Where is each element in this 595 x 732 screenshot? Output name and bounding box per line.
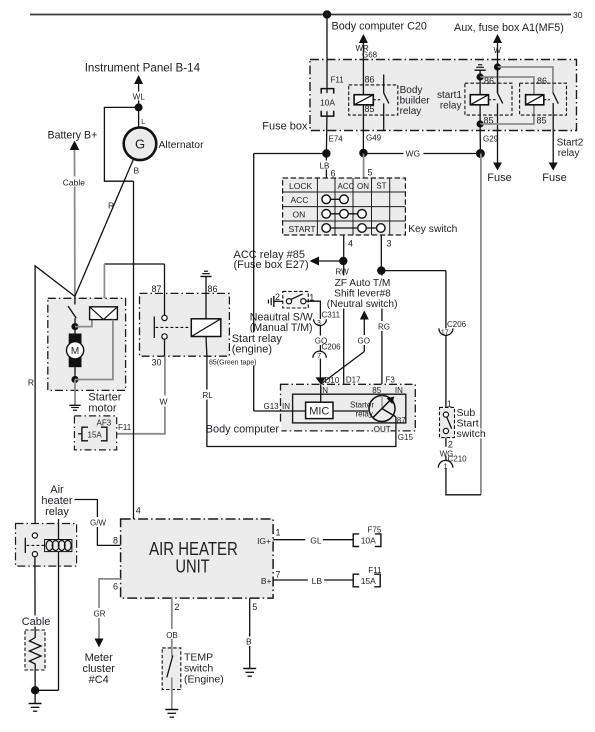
label Start relay (engine) (231, 333, 283, 358)
svg-text:OB: OB (166, 631, 178, 640)
wire WL node to alternator L (139, 107, 146, 127)
IC MIC (body computer) (306, 402, 333, 418)
wire GO (C311 to C206) (313, 325, 328, 351)
svg-text:85: 85 (537, 116, 547, 126)
svg-text:GL: GL (310, 536, 322, 546)
relay U1 body builder relay (349, 75, 398, 131)
svg-text:G49: G49 (366, 134, 382, 143)
svg-text:85: 85 (372, 386, 381, 395)
wire G49 to key switch pin 5 (gray) (364, 153, 373, 178)
svg-text:(engine): (engine) (232, 344, 272, 356)
relay K1 start1 relay (465, 67, 512, 131)
svg-text:Body computer: Body computer (206, 423, 280, 435)
wire G15/87 out to start relay 85 (207, 356, 396, 446)
svg-text:M: M (71, 346, 79, 357)
arrow to Aux fuse box (W wire) (493, 34, 502, 93)
wire key switch pin 4 (RW) (344, 235, 353, 261)
wire G/W (label pointer to air heater unit pin 8) (75, 500, 121, 546)
svg-text:30: 30 (152, 358, 162, 368)
node ZF junction (pin3/RG) (377, 266, 385, 274)
svg-text:Fuse box: Fuse box (262, 121, 308, 133)
svg-text:G: G (135, 137, 145, 152)
key switch ON row contacts (322, 210, 366, 219)
svg-text:8: 8 (113, 536, 118, 546)
ground (cable bottom) (29, 704, 42, 712)
svg-text:2: 2 (275, 292, 280, 302)
wire TEMP switch to ground (gray) (171, 690, 173, 710)
body computer box (gray) (281, 384, 416, 431)
svg-text:UNIT: UNIT (175, 556, 209, 576)
connector C210 pin 1 (438, 455, 467, 471)
svg-text:LB: LB (312, 576, 323, 586)
svg-text:W: W (160, 397, 168, 407)
label Cable (bottom) (21, 616, 52, 629)
label RL (202, 390, 214, 401)
wire ZF node right to C206 (381, 270, 446, 272)
svg-text:R: R (28, 378, 34, 388)
svg-text:2: 2 (175, 602, 180, 612)
wire node to ground (34, 690, 36, 703)
wire 30 bus to fuse F11 (326, 15, 328, 94)
label Neautral S/W (Manual T/M) (250, 312, 313, 335)
relay K2 start2 relay (520, 76, 567, 131)
svg-text:86: 86 (537, 76, 547, 86)
wire start relay 30 to AF3 fuse (W, gray) (107, 356, 169, 434)
svg-text:RW: RW (336, 268, 350, 277)
svg-text:6: 6 (113, 582, 118, 592)
wire 85 node to start2 coil 85 (gray jumper) (480, 105, 534, 124)
pin 5 wire to ground (B) (245, 598, 257, 668)
wire main feed riser (alternator to air heater unit pin 4) (133, 181, 135, 519)
svg-text:C206: C206 (322, 343, 342, 352)
svg-text:15A: 15A (88, 430, 103, 439)
wire LB to key switch pin 6 (319, 154, 336, 179)
connector C206 pin 17 (right) (439, 271, 467, 337)
svg-text:86: 86 (208, 284, 218, 294)
svg-text:RL: RL (203, 391, 214, 400)
svg-text:86: 86 (484, 76, 494, 86)
svg-text:Cable: Cable (22, 616, 51, 628)
arrow to Body computer C20 (WR wire) (356, 34, 378, 95)
svg-text:G13: G13 (264, 402, 280, 411)
svg-text:Instrument Panel B-14: Instrument Panel B-14 (85, 62, 201, 75)
wire MIC to starter relay circle (333, 410, 368, 412)
label 87 / OUT / G15 (373, 416, 413, 442)
node RW (339, 257, 347, 265)
resistor R1 cable (25, 630, 45, 670)
connector C311 pin 3 (314, 310, 341, 327)
wire C206-17 to sub start switch (445, 336, 447, 408)
svg-text:B: B (246, 637, 252, 647)
svg-text:MIC: MIC (309, 406, 329, 418)
fuse F11 10A (in fuse box) (320, 76, 344, 117)
svg-text:ON: ON (293, 210, 306, 220)
node cable/coil ground junction (31, 686, 39, 694)
wire start1 contact to fuse (arrow) (487, 131, 511, 185)
wire R branch (junction to left riser) (28, 266, 75, 533)
fuse F75 10A (353, 526, 382, 547)
key switch ACC row contacts (322, 195, 348, 204)
wire W node to start2 contact (gray jumper) (498, 67, 553, 93)
node W / start2 jumper (494, 63, 501, 70)
svg-text:C311: C311 (322, 310, 341, 319)
svg-text:WL: WL (133, 93, 146, 102)
key switch S1 (table) (283, 178, 406, 235)
svg-text:B+: B+ (261, 576, 272, 586)
relay K3 start relay (engine) (140, 264, 230, 368)
arrow to ACC relay (310, 257, 344, 266)
svg-text:Start2: Start2 (557, 138, 584, 149)
wire motor to ground (gray) (74, 380, 76, 406)
wire 30 bus (30, 10, 583, 20)
switch S2 Neutral S/W (manual) (275, 291, 314, 308)
svg-text:C206: C206 (447, 320, 467, 329)
fuse AF3 15A (F11) (74, 416, 131, 450)
svg-text:GR: GR (94, 610, 106, 619)
wire E74 node to body computer G13 (left/down branch) (254, 153, 327, 155)
svg-text:OUT: OUT (374, 425, 391, 434)
starter relay (body computer, circle) (369, 396, 396, 422)
svg-text:5: 5 (368, 168, 373, 178)
switch S4 Sub Start switch (440, 399, 455, 438)
label Body computer (205, 423, 282, 435)
wire body builder coil to G49 node (362, 105, 364, 154)
label ACC relay #85 (Fuse box E27) (234, 249, 309, 271)
svg-text:F11: F11 (368, 566, 382, 575)
svg-text:G/W: G/W (90, 519, 106, 528)
label TEMP switch (Engine) (184, 652, 224, 686)
solenoid (starter, triangle in box) (90, 307, 118, 320)
wire RG down to body computer F3 (381, 271, 383, 385)
svg-text:relay: relay (45, 506, 69, 518)
wire to solenoid right (gray) (75, 320, 113, 380)
node WL (135, 103, 143, 111)
arrow to ZF shift lever (GO wire) (321, 311, 369, 385)
svg-text:G29: G29 (483, 135, 499, 144)
svg-text:R: R (108, 201, 114, 211)
label Start2 relay (557, 138, 584, 160)
wire fuse F11 to E74 node (325, 111, 328, 153)
svg-text:start1: start1 (437, 90, 462, 101)
svg-text:Cable: Cable (63, 178, 85, 188)
node on 30 bus (323, 10, 331, 18)
svg-text:C210: C210 (448, 455, 468, 464)
wire key switch pin 3 (381, 235, 391, 271)
svg-text:relay: relay (400, 106, 422, 117)
wire coil return to node (35, 689, 58, 691)
svg-text:5: 5 (252, 602, 257, 612)
svg-text:START: START (289, 224, 316, 234)
label GO (ZF branch) (356, 335, 371, 346)
svg-text:4: 4 (348, 239, 353, 249)
key switch row/column labels (289, 181, 387, 234)
fuse box (top, gray) (310, 60, 577, 131)
svg-text:F3: F3 (386, 375, 396, 384)
svg-text:2: 2 (448, 440, 453, 450)
svg-text:(Fuse box E27): (Fuse box E27) (234, 259, 309, 271)
wire G13 into MIC (254, 402, 306, 411)
svg-text:Body: Body (400, 85, 423, 96)
ground (TEMP switch) (165, 710, 178, 718)
pin 1 IG+ wire to fuse F75 (257, 528, 353, 546)
svg-text:E74: E74 (329, 135, 344, 144)
wire air heater relay contact to cable resistor (34, 557, 36, 630)
svg-text:RG: RG (378, 323, 390, 332)
label 85(Green tape) (209, 357, 258, 367)
wire neutral switch pin1 to C311 (306, 301, 321, 319)
motor M (starter) (67, 329, 84, 376)
generator G1 alternator (124, 128, 157, 161)
svg-text:ON: ON (357, 182, 369, 191)
wire WL bracket (to main feed riser) (104, 107, 138, 181)
svg-text:Body computer C20: Body computer C20 (332, 21, 427, 33)
wire R (alternator B diagonal) (75, 159, 134, 297)
node start1 coil 86 (477, 73, 484, 80)
svg-text:relay: relay (558, 148, 580, 159)
label Starter motor (88, 392, 121, 415)
svg-text:6: 6 (331, 169, 336, 179)
wire RW node down to body computer D17 (343, 261, 345, 394)
svg-text:F11: F11 (118, 423, 132, 432)
svg-text:87: 87 (152, 284, 162, 294)
svg-text:Alternator: Alternator (159, 140, 205, 151)
arrow to battery (cable, gray) (62, 141, 86, 297)
starter motor M1 box (48, 296, 126, 390)
body computer pin labels top (320, 375, 403, 395)
svg-text:IN: IN (395, 386, 403, 395)
svg-text:Shift lever#8: Shift lever#8 (334, 288, 391, 299)
svg-text:D10: D10 (325, 376, 340, 385)
wire resistor to ground node (34, 670, 36, 690)
label Starter relay (internal) (350, 400, 374, 418)
svg-text:AF3: AF3 (97, 419, 112, 428)
svg-text:ST: ST (376, 182, 386, 191)
wire to solenoid left (gray) (75, 320, 92, 327)
arrow into D10 (315, 377, 326, 384)
arrow to instrument panel (WL) (132, 75, 146, 107)
svg-text:LOCK: LOCK (289, 181, 312, 191)
svg-text:87: 87 (397, 416, 406, 425)
wire 86 node to start2 coil (gray jumper) (480, 77, 534, 95)
ground (start relay engine, above pin 86) (200, 271, 211, 293)
ground (pin 5 B) (243, 669, 256, 677)
key switch START row contacts (322, 224, 385, 233)
wire WG node down to sub start switch (long gray) (480, 154, 482, 495)
wire WG (G49 node to WG node) (363, 153, 480, 155)
pin 2 wire to TEMP switch (gray) (165, 598, 180, 648)
wire start2 contact to fuse (arrow) (542, 131, 566, 185)
pin 7 B+ wire to fuse F11b (261, 570, 353, 587)
svg-text:G68: G68 (362, 51, 378, 60)
svg-text:D17: D17 (346, 375, 361, 384)
svg-text:85: 85 (365, 104, 375, 114)
svg-text:Aux, fuse box A1(MF5): Aux, fuse box A1(MF5) (454, 22, 564, 34)
node start1 coil 85 (477, 120, 484, 127)
node motor bottom (71, 376, 78, 383)
svg-text:ACC: ACC (291, 195, 309, 205)
ground (starter motor) (69, 405, 80, 410)
svg-text:L: L (141, 119, 145, 126)
switch S3 TEMP switch (162, 648, 181, 690)
svg-text:relay: relay (356, 409, 373, 418)
svg-text:7: 7 (276, 570, 281, 580)
svg-text:W: W (494, 46, 502, 55)
svg-text:#C4: #C4 (89, 674, 109, 686)
label Air heater relay (41, 484, 73, 518)
svg-text:(Neutral switch): (Neutral switch) (327, 299, 398, 310)
node starter switch to motor (71, 323, 78, 330)
svg-text:3: 3 (387, 239, 392, 249)
svg-text:4: 4 (136, 506, 141, 516)
svg-text:motor: motor (88, 403, 116, 415)
svg-text:Starter: Starter (350, 400, 374, 409)
svg-text:switch: switch (457, 428, 486, 440)
svg-text:F75: F75 (368, 526, 382, 535)
wire D10 to MIC (320, 384, 322, 402)
node WG junction (476, 149, 485, 158)
svg-text:IN: IN (282, 402, 290, 411)
svg-text:relay: relay (440, 101, 462, 112)
svg-text:Fuse: Fuse (487, 172, 511, 184)
fuse F11 15A (bottom right) (353, 566, 382, 587)
svg-text:17: 17 (441, 330, 449, 337)
node E74/LB junction (322, 149, 330, 157)
svg-text:10A: 10A (361, 536, 376, 546)
svg-text:GO: GO (358, 337, 370, 346)
connector C206 pin 7 (313, 343, 341, 361)
wire 87 bus (y=264 horizontal) (104, 263, 164, 265)
label Meter cluster #C4 (82, 652, 115, 686)
node G49 (359, 149, 367, 157)
svg-text:86: 86 (365, 75, 375, 85)
pin 6 + GR wire to meter cluster (93, 579, 121, 648)
relay K4 air heater relay (16, 519, 77, 690)
wire start1 85 to G29 / WG node (479, 124, 481, 154)
ground (fuse box, above start1 relay coil) (475, 65, 486, 77)
ground (neutral switch, sideways) (268, 296, 286, 307)
svg-text:LB: LB (320, 162, 330, 171)
svg-text:IG+: IG+ (257, 536, 271, 546)
svg-text:30: 30 (573, 10, 583, 20)
svg-text:1: 1 (276, 528, 281, 538)
wire sub start switch pin 2 to C210 (440, 438, 454, 461)
svg-text:G15: G15 (398, 433, 414, 442)
svg-text:ACC: ACC (338, 182, 355, 191)
svg-text:Battery B+: Battery B+ (48, 130, 98, 142)
label Sub Start switch (455, 407, 488, 440)
svg-text:Key switch: Key switch (408, 224, 457, 235)
svg-text:(Engine): (Engine) (184, 674, 224, 686)
svg-text:builder: builder (400, 96, 431, 107)
svg-text:10A: 10A (320, 98, 335, 108)
wire C210 to WG riser (446, 468, 481, 494)
air heater unit box (121, 519, 274, 598)
label RG (377, 321, 391, 332)
wire C206 to body computer D10 (319, 359, 321, 378)
svg-text:85(Green tape): 85(Green tape) (209, 360, 256, 367)
svg-text:WG: WG (406, 149, 421, 159)
label start1 relay (437, 90, 462, 112)
svg-text:15A: 15A (361, 576, 376, 586)
label ZF Auto T/M Shift lever#8 (Neutral switch) (325, 276, 400, 310)
svg-text:B: B (134, 166, 140, 176)
svg-text:ZF Auto T/M: ZF Auto T/M (335, 278, 391, 289)
svg-text:F11: F11 (331, 76, 345, 85)
label Body builder relay (400, 85, 431, 117)
svg-text:Fuse: Fuse (542, 172, 566, 184)
wire G13 riser (from LB node) (253, 154, 255, 412)
